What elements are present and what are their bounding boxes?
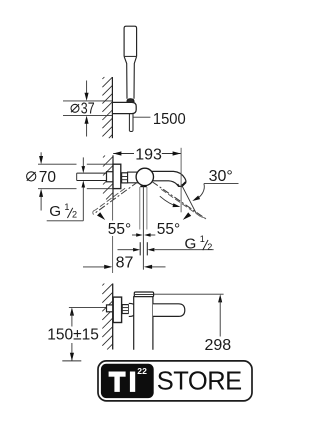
extension line from cap top to 298 dim: [154, 293, 224, 295]
left swing phantom handle (55deg): [93, 182, 138, 214]
dimension G1/2 at supply (left): [82, 157, 84, 167]
tub rim tick line: [62, 360, 81, 362]
dimension 193: [113, 153, 134, 155]
hand shower head: [124, 26, 137, 56]
wall edge line (middle view): [112, 155, 114, 199]
wall edge line (bottom view): [112, 284, 114, 350]
svg-text:298: 298: [205, 337, 232, 354]
svg-text:193: 193: [135, 146, 162, 163]
spout (curved, 30 deg down): [151, 171, 186, 186]
label D37: [71, 104, 79, 112]
right swing phantom handle (55deg): [152, 182, 206, 219]
left swing arrowhead: [97, 212, 105, 220]
right swing arrowhead: [183, 212, 191, 220]
faucet body tube: [128, 172, 139, 183]
wall bracket / shower holder: [113, 102, 137, 113]
spout outlet face (thick): [181, 182, 186, 187]
svg-text:G: G: [185, 235, 197, 252]
svg-text:1500: 1500: [153, 111, 186, 128]
svg-text:2: 2: [72, 210, 77, 220]
svg-text:55°: 55°: [157, 221, 180, 238]
supply flange at wall: [107, 172, 114, 182]
label 1500 with leader line to hose: [133, 116, 150, 118]
svg-text:22: 22: [137, 366, 147, 376]
wall face reference line going down: [112, 199, 114, 220]
inner swing arc arrow (right): [160, 196, 178, 206]
svg-text:2: 2: [207, 242, 212, 252]
svg-text:STORE: STORE: [157, 368, 242, 396]
svg-text:1: 1: [200, 234, 205, 244]
top view: wall section with hatching: [102, 77, 104, 79]
dimension 298 vertical with up arrow: [218, 294, 222, 302]
svg-text:87: 87: [116, 254, 134, 271]
svg-text:37: 37: [81, 101, 95, 118]
hand shower connector at handle bottom (G1/2): [139, 242, 141, 255]
hand shower hose below bracket: [128, 114, 130, 131]
handle socket under ball: [140, 185, 146, 187]
supply pipe lines behind wall: [77, 172, 107, 174]
shower handle conical end (dark): [127, 99, 134, 103]
escutcheon (bottom view): [113, 297, 121, 322]
dimension D37: bottom arrow: [86, 122, 88, 137]
dimension 150+-15: [70, 307, 74, 315]
check valve knob: [129, 303, 136, 316]
shower handle (tapering): [124, 56, 127, 98]
svg-text:70: 70: [39, 169, 57, 186]
supply flange (bottom view): [107, 305, 113, 312]
escutcheon plate (middle view): [113, 164, 121, 188]
union nut: [122, 173, 128, 183]
svg-text:1: 1: [64, 202, 69, 212]
vertical reference line at spout tip: [180, 148, 182, 213]
label G1/2 (left) with underline: [47, 220, 84, 222]
dimension D37: extension lines: [63, 100, 112, 102]
dimension 87: [83, 266, 106, 268]
shower head/handle joint line: [125, 55, 137, 57]
faucet column body: [134, 297, 153, 350]
dimension G1/2 bottom with arrows: [118, 249, 134, 251]
svg-text:150±15: 150±15: [47, 326, 99, 343]
middle view: wall hatching: [103, 156, 105, 158]
dimension D70: [38, 163, 77, 165]
handle center line going down: [142, 187, 144, 270]
svg-text:55°: 55°: [108, 221, 131, 238]
logo black TI block: [101, 364, 154, 398]
union nut (bottom view): [122, 305, 128, 314]
spout (bottom view, horizontal with rounded end): [153, 304, 185, 317]
svg-text:30°: 30°: [209, 168, 233, 185]
handle (hanging down) outer edges: [139, 187, 141, 230]
faucet column cap: [134, 292, 153, 297]
supply center extension line: [69, 306, 113, 308]
TI22 STORE logo outer rounded box: [98, 361, 252, 401]
30deg reference line (slanted): [181, 184, 196, 213]
logo letter T (white bars): [109, 372, 126, 377]
dimension D37: top arrow: [86, 81, 88, 95]
logo letter I (white bar): [130, 372, 135, 392]
bottom view: wall hatching: [102, 284, 104, 286]
wall edge line (top view): [111, 77, 113, 138]
lever ball: [136, 168, 153, 185]
svg-text:G: G: [49, 203, 61, 220]
